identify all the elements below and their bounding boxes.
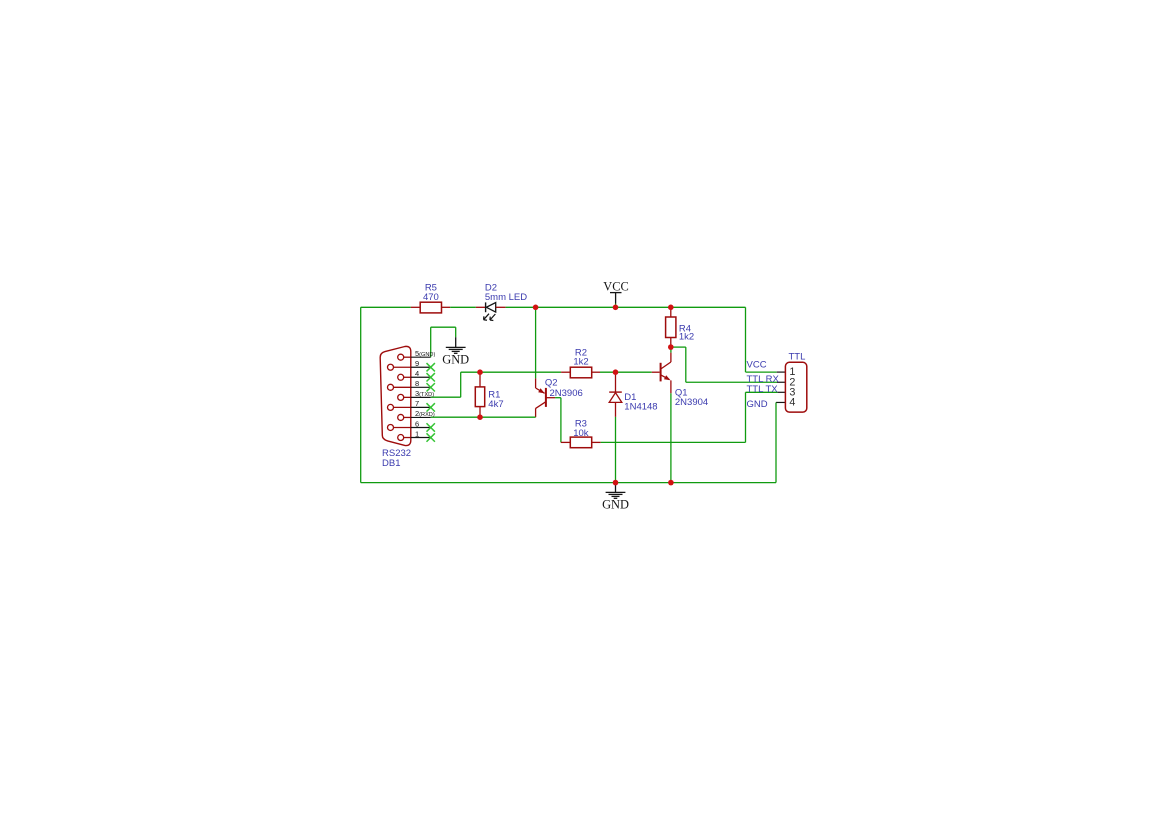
svg-text:GND: GND xyxy=(747,399,768,410)
svg-text:VCC: VCC xyxy=(603,279,628,293)
svg-text:6: 6 xyxy=(415,419,419,428)
svg-text:5mm LED: 5mm LED xyxy=(485,292,527,303)
svg-text:VCC: VCC xyxy=(747,360,767,371)
svg-text:470: 470 xyxy=(423,292,439,303)
svg-text:4: 4 xyxy=(415,369,419,378)
svg-text:8: 8 xyxy=(415,379,419,388)
svg-text:7: 7 xyxy=(415,399,419,408)
svg-text:2N3906: 2N3906 xyxy=(550,388,583,399)
svg-text:4: 4 xyxy=(789,396,795,408)
svg-text:5(GND): 5(GND) xyxy=(415,349,435,358)
svg-text:2(RXD): 2(RXD) xyxy=(415,409,435,418)
svg-text:9: 9 xyxy=(415,359,419,368)
svg-text:1k2: 1k2 xyxy=(679,332,694,343)
svg-text:4k7: 4k7 xyxy=(488,399,503,410)
svg-text:10k: 10k xyxy=(573,428,589,439)
svg-text:1N4148: 1N4148 xyxy=(624,401,657,412)
svg-text:DB1: DB1 xyxy=(382,458,400,469)
svg-text:GND: GND xyxy=(442,353,469,367)
svg-text:TTL TX: TTL TX xyxy=(747,384,779,395)
svg-text:TTL: TTL xyxy=(789,352,806,363)
svg-text:Q2: Q2 xyxy=(545,377,558,388)
svg-text:3(TXD): 3(TXD) xyxy=(415,389,434,398)
svg-text:GND: GND xyxy=(602,498,629,512)
svg-text:2N3904: 2N3904 xyxy=(675,397,708,408)
svg-text:1k2: 1k2 xyxy=(573,356,588,367)
svg-text:1: 1 xyxy=(415,429,419,438)
